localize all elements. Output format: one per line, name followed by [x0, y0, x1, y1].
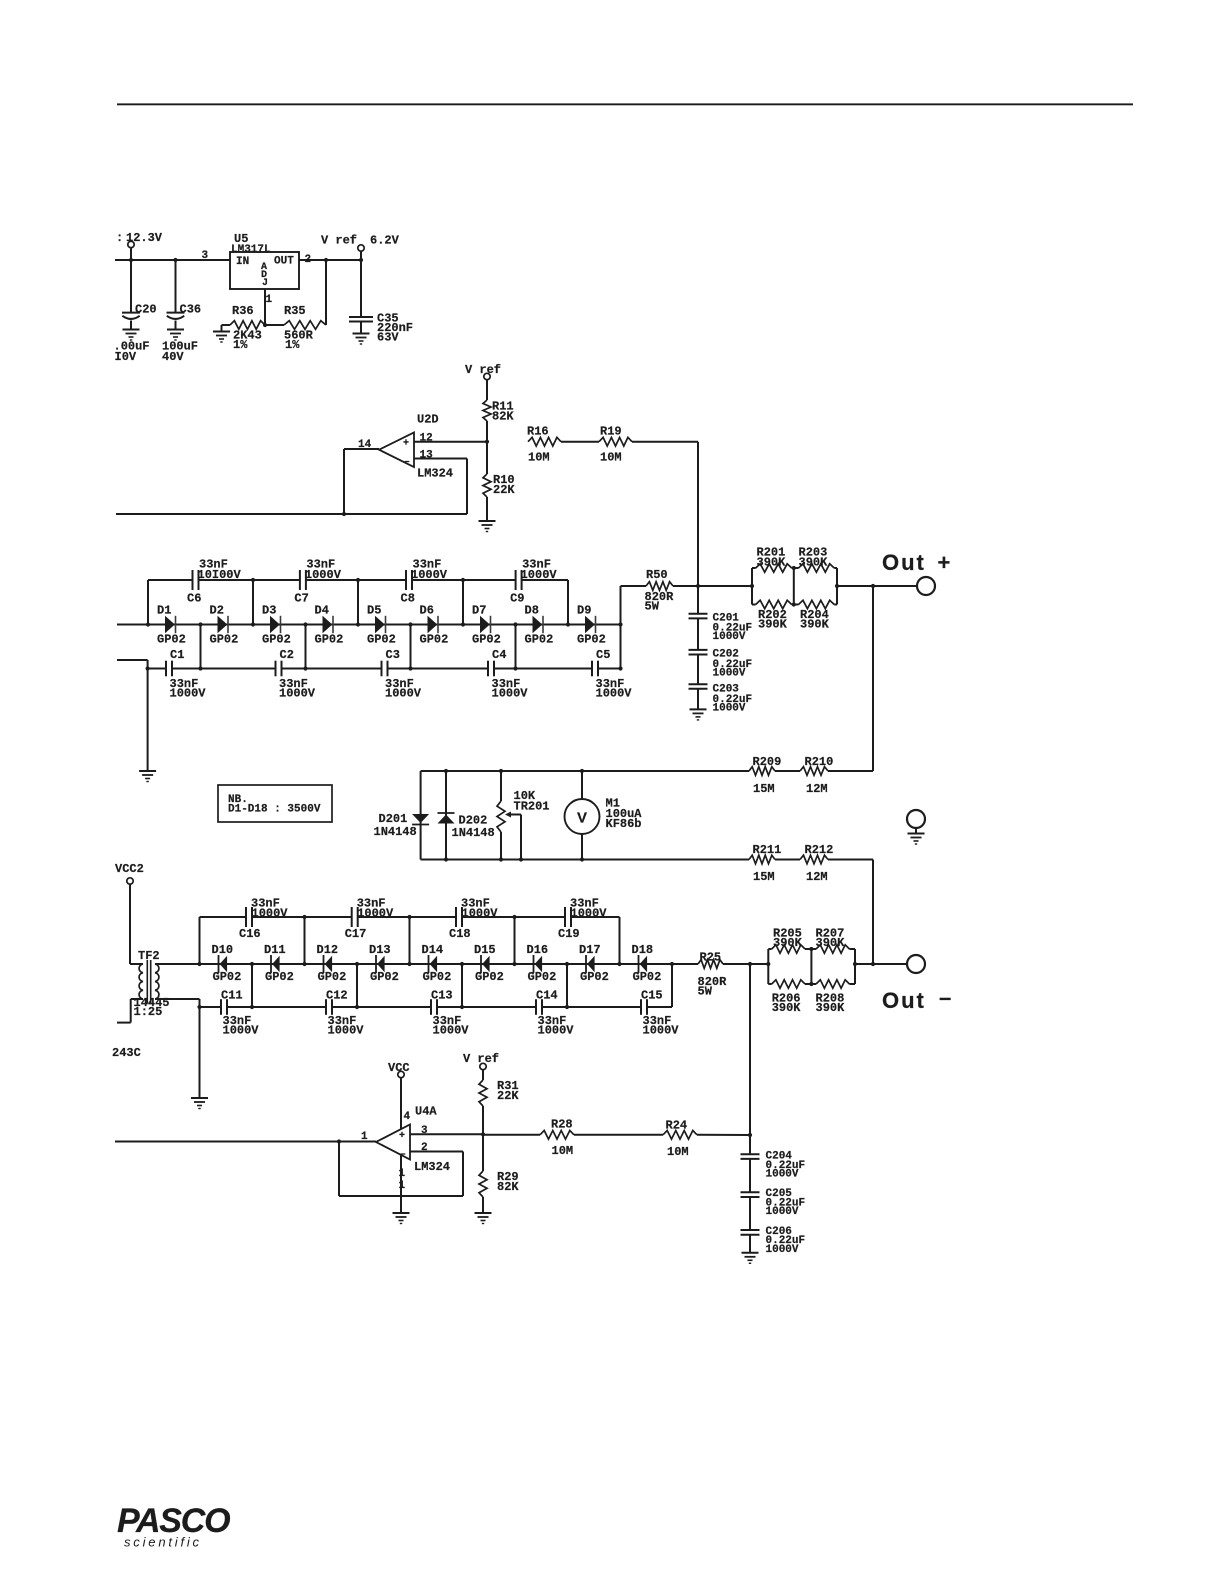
capacitor C204 0.22uF: [741, 1135, 806, 1181]
wire U4A pin 3: [410, 1125, 482, 1137]
capacitor C20: [114, 260, 157, 364]
junction: [198, 666, 202, 670]
resistor R212 12M: [800, 843, 833, 884]
junction: [748, 1133, 752, 1137]
svg-text:15M: 15M: [753, 870, 775, 884]
svg-text:1000V: 1000V: [170, 687, 207, 701]
svg-text:390K: 390K: [816, 936, 846, 950]
wire meter bottom rail: [421, 859, 749, 861]
wire upper top cap rail: [148, 579, 568, 581]
svg-text:KF86b: KF86b: [606, 817, 642, 831]
junction: [748, 962, 752, 966]
svg-text:GP02: GP02: [475, 970, 504, 984]
svg-text:390K: 390K: [758, 618, 788, 632]
capacitor C36: [162, 260, 201, 364]
wire U2D pin 13 feedback: [344, 450, 467, 515]
svg-text:1000V: 1000V: [766, 1244, 799, 1256]
junction: [617, 962, 621, 966]
node Out - terminal: [855, 964, 951, 1013]
op-amp U4A LM324: [339, 1105, 450, 1175]
svg-text:10M: 10M: [667, 1145, 689, 1159]
ground: [167, 329, 184, 331]
junction: [146, 666, 150, 670]
junction: [853, 962, 857, 966]
capacitor C1 33nF: [166, 648, 206, 701]
svg-text:1000V: 1000V: [713, 631, 746, 643]
node Out + terminal: [837, 550, 950, 586]
wire riser to lower bottom row: [566, 964, 568, 1007]
svg-text:GP02: GP02: [472, 633, 501, 647]
wire 12.3V rail to U5 IN: [115, 250, 230, 262]
wire riser to top rail: [462, 580, 464, 625]
wire riser to top rail: [252, 580, 254, 625]
wire: [775, 770, 800, 772]
svg-text:C4: C4: [492, 648, 506, 662]
svg-text:1000V: 1000V: [385, 687, 422, 701]
svg-text:22K: 22K: [497, 1089, 519, 1103]
svg-text:C2: C2: [280, 648, 294, 662]
resistor R202 390K: [752, 568, 794, 632]
node V ref 6.2V terminal: [321, 234, 400, 261]
svg-text:scientific: scientific: [124, 1535, 202, 1550]
junction: [792, 602, 796, 606]
svg-text:C1: C1: [170, 648, 184, 662]
svg-text:GP02: GP02: [265, 970, 294, 984]
junction: [696, 584, 700, 588]
node 12.3V input terminal: [116, 231, 163, 260]
svg-text:D6: D6: [420, 604, 434, 618]
resistor R10 22K: [483, 442, 515, 521]
svg-text:1000V: 1000V: [328, 1024, 365, 1038]
svg-text:D14: D14: [422, 943, 444, 957]
junction: [809, 982, 813, 986]
svg-text:U2D: U2D: [417, 413, 439, 427]
wire riser to lower top rail: [619, 917, 621, 964]
svg-text:1000V: 1000V: [357, 907, 394, 921]
ground: [213, 331, 230, 333]
svg-text:+: +: [399, 1131, 405, 1142]
svg-text:D10: D10: [212, 943, 234, 957]
resistor R29 82K: [479, 1134, 519, 1213]
svg-text:1000V: 1000V: [305, 568, 342, 582]
wire upper bottom cap row: [117, 660, 621, 669]
svg-text:R25: R25: [700, 951, 722, 965]
svg-text:C36: C36: [180, 303, 202, 317]
svg-text:1000V: 1000V: [766, 1206, 799, 1218]
wire riser to bottom row: [200, 625, 202, 669]
wire: [574, 1134, 663, 1136]
svg-text:D2: D2: [210, 604, 224, 618]
node V ref terminal: [463, 1052, 499, 1080]
svg-text:D11: D11: [264, 943, 286, 957]
junction: [355, 1005, 359, 1009]
svg-text:10M: 10M: [552, 1144, 574, 1158]
capacitor C203 0.22uF: [689, 655, 753, 715]
junction: [565, 962, 569, 966]
svg-text:5W: 5W: [645, 600, 660, 614]
svg-text:1: 1: [399, 1180, 406, 1192]
svg-text:D13: D13: [369, 943, 391, 957]
svg-text:C8: C8: [401, 592, 415, 606]
svg-text:1000V: 1000V: [766, 1169, 799, 1181]
svg-text:C13: C13: [431, 989, 453, 1003]
svg-text:GP02: GP02: [157, 633, 186, 647]
svg-text:13: 13: [420, 450, 434, 462]
svg-text:D17: D17: [579, 943, 601, 957]
svg-text:12M: 12M: [806, 870, 828, 884]
capacitor C18 33nF: [449, 897, 498, 942]
wire riser to top rail: [147, 580, 149, 625]
junction: [197, 1005, 201, 1009]
wire riser to top rail: [567, 580, 569, 625]
diode D2 GP02: [210, 604, 239, 647]
junction: [407, 915, 411, 919]
ground lower multiplier: [199, 1007, 201, 1098]
diode D202 1N4148: [438, 771, 495, 860]
wire meter top rail: [421, 770, 749, 772]
svg-text:R210: R210: [805, 755, 834, 769]
svg-text:63V: 63V: [377, 331, 399, 345]
svg-text:12M: 12M: [806, 782, 828, 796]
svg-text:D16: D16: [527, 943, 549, 957]
svg-text:C17: C17: [345, 927, 367, 941]
node V ref terminal: [465, 363, 501, 400]
capacitor C12 33nF: [326, 989, 364, 1038]
diode D17 GP02: [579, 943, 609, 984]
svg-text:1000V: 1000V: [433, 1024, 470, 1038]
svg-text:D3: D3: [262, 604, 276, 618]
resistor R211 15M: [749, 843, 781, 884]
junction: [356, 622, 360, 626]
diode D12 GP02: [317, 943, 347, 984]
capacitor C16 33nF: [239, 897, 288, 942]
svg-text:–: –: [939, 985, 951, 1010]
note box D1-D18 3500V: [218, 785, 332, 822]
capacitor C15 33nF: [641, 989, 679, 1038]
junction: [809, 947, 813, 951]
resistor R207 390K: [805, 927, 855, 954]
junction: [871, 962, 875, 966]
wire riser to top rail: [357, 580, 359, 625]
svg-text:C19: C19: [558, 927, 580, 941]
svg-text:D201: D201: [379, 812, 408, 826]
svg-text:10M: 10M: [528, 451, 550, 465]
junction: [302, 962, 306, 966]
diode D14 GP02: [422, 943, 452, 984]
wire U4A pin 11 to ground: [399, 1155, 406, 1213]
resistor R36 2K43: [222, 304, 266, 352]
resistor R209 15M: [749, 755, 781, 796]
node VCC2 terminal: [115, 862, 144, 964]
ground: [742, 1252, 759, 1254]
svg-text:TR201: TR201: [514, 800, 550, 814]
svg-text:10M: 10M: [600, 451, 622, 465]
ground: [475, 1212, 492, 1214]
capacitor C17 33nF: [345, 897, 394, 942]
transformer TF2 14445 1:25: [117, 949, 200, 1023]
op-amp U2D LM324: [344, 413, 453, 515]
wire lower top cap rail: [200, 916, 620, 918]
svg-text:243C: 243C: [112, 1046, 141, 1060]
regulator U5 LM317L: [230, 232, 299, 289]
junction: [408, 666, 412, 670]
svg-text:TF2: TF2: [138, 949, 160, 963]
wire riser to bottom row: [410, 625, 412, 669]
junction: [460, 1005, 464, 1009]
svg-text:GP02: GP02: [580, 970, 609, 984]
junction: [461, 622, 465, 626]
svg-text:10I00V: 10I00V: [198, 568, 242, 582]
wire riser to bottom row: [515, 625, 517, 669]
wire negative node down: [749, 964, 751, 1135]
svg-text:3: 3: [202, 250, 209, 262]
junction: [835, 584, 839, 588]
resistor R205 390K: [768, 927, 805, 985]
svg-text:+: +: [403, 439, 409, 450]
svg-text:6.2V: 6.2V: [370, 234, 400, 248]
wire: [483, 1134, 540, 1136]
capacitor C19 33nF: [558, 897, 607, 942]
svg-text:D12: D12: [317, 943, 339, 957]
resistor R24 10M: [663, 1119, 697, 1160]
svg-text:R36: R36: [232, 304, 254, 318]
svg-text:D8: D8: [525, 604, 539, 618]
svg-text:D5: D5: [367, 604, 381, 618]
terminal Out-: [907, 955, 925, 973]
resistor R28 10M: [540, 1118, 574, 1159]
svg-text:1000V: 1000V: [643, 1024, 680, 1038]
svg-text:C9: C9: [510, 592, 524, 606]
wire riser to lower top rail: [514, 917, 516, 964]
junction: [444, 857, 448, 861]
junction: [580, 857, 584, 861]
diode D13 GP02: [369, 943, 399, 984]
wire riser to lower bottom row: [461, 964, 463, 1007]
svg-text:1: 1: [361, 1131, 368, 1143]
resistor R204 390K: [792, 568, 837, 632]
svg-text:LM324: LM324: [417, 467, 453, 481]
junction: [485, 440, 489, 444]
diode D15 GP02: [474, 943, 504, 984]
wire to negative divider: [750, 963, 768, 965]
junction: [302, 915, 306, 919]
svg-text:C7: C7: [294, 592, 308, 606]
capacitor C202 0.22uF: [689, 618, 753, 679]
svg-text:C18: C18: [449, 927, 471, 941]
wire lower bottom cap row: [200, 1006, 673, 1008]
junction: [792, 566, 796, 570]
svg-text:1000V: 1000V: [571, 907, 608, 921]
svg-text:LM317L: LM317L: [231, 244, 271, 256]
junction: [512, 962, 516, 966]
svg-text:R28: R28: [551, 1118, 573, 1132]
svg-text:+: +: [938, 550, 951, 575]
svg-text:GP02: GP02: [525, 633, 554, 647]
svg-text:GP02: GP02: [528, 970, 557, 984]
wire to output divider: [698, 585, 752, 587]
wire: [561, 441, 599, 443]
svg-text:V: V: [577, 810, 587, 827]
svg-text:D7: D7: [472, 604, 486, 618]
junction: [750, 584, 754, 588]
junction: [513, 666, 517, 670]
svg-text:12: 12: [420, 433, 433, 445]
svg-text:V ref: V ref: [465, 363, 501, 377]
junction: [499, 769, 503, 773]
svg-text:1000V: 1000V: [713, 668, 746, 680]
svg-text:D18: D18: [632, 943, 654, 957]
wire upper diode row: [117, 624, 621, 626]
svg-text:Out: Out: [882, 550, 926, 575]
svg-text:OUT: OUT: [274, 256, 294, 268]
svg-text:1000V: 1000V: [521, 568, 558, 582]
svg-text:R211: R211: [753, 843, 782, 857]
wire riser to lower top rail: [409, 917, 411, 964]
svg-text:390K: 390K: [799, 556, 829, 570]
node VCC terminal: [388, 1061, 411, 1130]
resistor R16 10M: [527, 425, 561, 465]
svg-text:R16: R16: [527, 425, 549, 439]
svg-text:40V: 40V: [162, 350, 184, 364]
diode D201 1N4148: [374, 771, 430, 860]
svg-text:–: –: [404, 457, 410, 468]
ground: [479, 520, 496, 522]
resistor R201 390K: [752, 546, 792, 605]
junction: [461, 578, 465, 582]
svg-text:J: J: [262, 278, 268, 289]
capacitor C11 33nF: [221, 989, 259, 1038]
junction: [337, 1139, 341, 1143]
svg-text:GP02: GP02: [367, 633, 396, 647]
svg-text:5W: 5W: [698, 985, 713, 999]
capacitor C35 220nF: [349, 260, 413, 345]
resistor R210 12M: [800, 755, 833, 796]
capacitor C9 33nF: [510, 558, 557, 606]
svg-text:D9: D9: [577, 604, 591, 618]
svg-text:1: 1: [266, 294, 273, 306]
ground: [139, 770, 156, 772]
junction: [251, 578, 255, 582]
junction: [566, 622, 570, 626]
ground: [191, 1097, 208, 1099]
capacitor C3 33nF: [382, 648, 422, 701]
svg-text:R50: R50: [646, 568, 668, 582]
capacitor C206 0.22uF: [741, 1197, 806, 1256]
svg-text:GP02: GP02: [210, 633, 239, 647]
terminal earth: [907, 810, 925, 834]
svg-text:D1-D18 : 3500V: D1-D18 : 3500V: [228, 804, 321, 816]
junction: [871, 584, 875, 588]
wire riser D9 cathode to R50 and bottom row: [620, 586, 622, 669]
wire U2D pin 12: [414, 433, 487, 445]
diode D10 GP02: [212, 943, 242, 984]
diode D18 GP02: [632, 943, 662, 984]
junction: [513, 622, 517, 626]
svg-text:GP02: GP02: [213, 970, 242, 984]
junction: [407, 962, 411, 966]
potentiometer TR201 10K: [497, 771, 550, 860]
wire U2D output net: [116, 513, 344, 515]
svg-text:1000V: 1000V: [596, 687, 633, 701]
terminal Out+: [917, 577, 935, 595]
svg-text:D4: D4: [315, 604, 329, 618]
svg-text:GP02: GP02: [420, 633, 449, 647]
capacitor C8 33nF: [401, 558, 448, 606]
capacitor C205 0.22uF: [741, 1159, 806, 1218]
svg-text:390K: 390K: [773, 936, 803, 950]
wire riser to lower top rail: [304, 917, 306, 964]
ground: [690, 708, 707, 710]
svg-text:82K: 82K: [497, 1180, 519, 1194]
svg-text:1000V: 1000V: [279, 687, 316, 701]
diode D3 GP02: [262, 604, 291, 647]
svg-text:R35: R35: [284, 304, 306, 318]
diode D4 GP02: [315, 604, 344, 647]
wire U4A output net: [115, 1141, 339, 1143]
junction: [324, 258, 328, 262]
junction: [618, 622, 622, 626]
wire R212 to Out- node: [828, 860, 873, 967]
svg-text:1000V: 1000V: [492, 687, 529, 701]
svg-text:LM324: LM324: [414, 1160, 450, 1174]
svg-text:390K: 390K: [757, 556, 787, 570]
meter M1 100uA: [565, 771, 643, 860]
svg-text:R24: R24: [666, 1119, 688, 1133]
wire R24 to negative node: [697, 1134, 750, 1136]
resistor R19 10M: [599, 425, 632, 465]
wire secondary top to diode row: [155, 963, 200, 965]
junction: [356, 578, 360, 582]
svg-text:V ref: V ref: [321, 234, 357, 248]
svg-text:I0V: I0V: [115, 350, 137, 364]
junction: [303, 666, 307, 670]
svg-text:C3: C3: [386, 648, 400, 662]
junction: [250, 962, 254, 966]
svg-text:82K: 82K: [492, 410, 514, 424]
resistor R50 820R 5W: [621, 568, 699, 614]
ground: [908, 833, 925, 835]
diode D1 GP02: [157, 604, 186, 647]
svg-text:1000V: 1000V: [713, 703, 746, 715]
svg-text:1N4148: 1N4148: [452, 826, 495, 840]
capacitor C13 33nF: [431, 989, 469, 1038]
junction: [355, 962, 359, 966]
svg-text:390K: 390K: [816, 1001, 846, 1015]
svg-text:D15: D15: [474, 943, 496, 957]
junction: [251, 622, 255, 626]
resistor R203 390K: [792, 546, 837, 573]
svg-text:C20: C20: [135, 303, 157, 317]
junction: [250, 1005, 254, 1009]
svg-text:VCC2: VCC2: [115, 862, 144, 876]
svg-text:1%: 1%: [285, 338, 300, 352]
svg-text:C11: C11: [221, 989, 243, 1003]
wire riser to lower top rail: [199, 917, 201, 964]
svg-text:C5: C5: [596, 648, 610, 662]
wire riser to lower bottom row: [356, 964, 358, 1007]
resistor R35 560R: [265, 260, 326, 352]
svg-text:1000V: 1000V: [411, 568, 448, 582]
junction: [670, 962, 674, 966]
svg-text:GP02: GP02: [423, 970, 452, 984]
junction: [565, 1005, 569, 1009]
junction: [512, 915, 516, 919]
svg-text:GP02: GP02: [318, 970, 347, 984]
junction: [198, 622, 202, 626]
resistor R11 82K: [483, 400, 514, 442]
ground upper multiplier: [147, 669, 149, 772]
svg-text:C16: C16: [239, 927, 261, 941]
